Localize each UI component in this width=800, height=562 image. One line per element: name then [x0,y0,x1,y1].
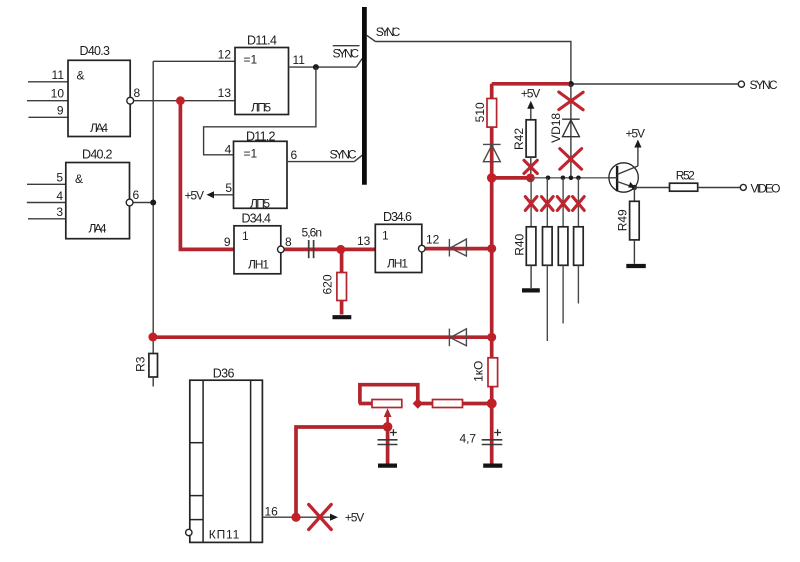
red wire vertical from pin8 net down to D34.4 pin 9 [180,101,234,250]
svg-text:R52: R52 [676,169,695,183]
junction dot at D40.2 pin 6 [150,200,156,206]
svg-text:=1: =1 [244,146,258,160]
wire D40.3 pin 10 input [27,100,69,102]
svg-text:R42: R42 [512,128,526,150]
svg-text:9: 9 [224,235,231,249]
output bubble D40.3 pin 8 [127,97,134,104]
power +5V arrow above R42 [521,87,541,120]
pin label 11 [293,53,306,67]
junction dot red on vertical wire at x153 [148,333,157,342]
long vertical wire from pin 12 net down to red net [152,61,154,354]
X mark on VD18 branch top [559,92,583,110]
pin label 5 [56,170,63,184]
svg-text:510: 510 [473,102,487,122]
red wire D34.6 pin 12 to red bus junction [425,247,492,251]
dangling wire below resistor 3 [562,265,564,323]
capacitor 5,6n [302,226,323,259]
svg-text:D40.3: D40.3 [80,44,111,58]
pin label 13 [218,86,232,100]
pin label 12 [218,48,232,62]
vertical wires to resistor row [531,178,578,227]
wire D40.2 pin 4 input [27,202,66,204]
wire pin16 junction to +5V arrow [296,514,338,521]
diode below 510 [483,144,501,161]
svg-text:D11.4: D11.4 [247,33,277,47]
svg-text:ЛА4: ЛА4 [90,121,108,135]
transistor Q1 [609,163,638,192]
wire R52 to VIDEO terminal [698,187,741,189]
svg-text:16: 16 [265,505,279,519]
power +5V arrow at collector [626,126,646,166]
svg-text:1: 1 [382,228,389,242]
output bubble D34.4 pin 8 [278,246,285,253]
bubble on D36 left edge [186,529,192,535]
wire D40.2 pin 3 input [28,218,66,220]
resistor R52 [670,169,698,192]
svg-text:8: 8 [134,86,141,100]
terminal SYNC [738,78,778,92]
ground below R49 [626,264,646,268]
junction dot [487,333,496,342]
wire D40.3 pin 8 output to D11.4 pin 13 [134,100,235,102]
svg-text:5: 5 [56,170,63,184]
svg-text:5,6n: 5,6n [302,226,323,240]
pin label 6 [291,148,298,162]
svg-text:VIDEO: VIDEO [751,182,781,196]
X mark below VD18 [560,149,582,170]
ground below R40 [522,288,540,292]
ground below 620 [333,315,352,319]
base node wire to transistor [531,177,610,179]
svg-text:620: 620 [321,274,335,294]
svg-text:D40.2: D40.2 [82,147,113,161]
wire emitter node to R52 [634,187,669,189]
feedback wire pin 11 to D11.2 pin 4 [204,67,316,155]
junction dot at pin16 [291,513,300,522]
XOR gate D11.2 ЛП5 [234,129,288,210]
junction dot [568,81,574,87]
diode on pin 12 wire [449,239,466,257]
svg-text:6: 6 [133,188,140,202]
red wire junction row to R42 node dot [492,176,531,180]
red wire top to junction at x=570.9 [492,82,570,86]
svg-text:R49: R49 [615,209,629,231]
svg-text:SYNC: SYNC [330,147,357,161]
power label +5V bottom [345,511,365,525]
svg-text:SYNC: SYNC [376,25,401,39]
NAND gate D40.2 ЛА4 [66,147,130,238]
resistor R3 [133,354,157,387]
big junction dot [487,173,497,183]
red wire pot left terminal [359,402,372,406]
svg-text:10: 10 [51,87,65,101]
svg-text:11: 11 [293,53,306,67]
dangling wire below resistor 2 [546,265,548,341]
pin label 10 [51,87,65,101]
wire R42 bottom to node [530,157,532,178]
pin label 6 [133,188,140,202]
diamond junction at pot right [413,398,423,408]
dangling wire below resistor 4 [577,265,579,303]
resistor R40 [512,227,536,265]
svg-text:D34.6: D34.6 [383,210,412,224]
svg-text:D34.4: D34.4 [242,212,272,226]
wire SYNC from bus to right [367,35,571,84]
wire D11.4 pin 12 input [153,60,235,62]
red wire wiper junction down to cap [386,427,390,464]
pin label 16 [265,505,279,519]
svg-text:3: 3 [56,205,63,219]
pin label 5 [225,181,232,195]
wire D36 pin 16 [262,516,296,518]
pin label 3 [56,205,63,219]
red wire diamond to resistor [418,402,433,406]
X marks row of four [525,197,584,211]
big red vertical wire x=491.7 [490,84,494,464]
svg-text:SYNC: SYNC [750,78,778,92]
svg-text:13: 13 [357,234,371,248]
wiper arrow red [384,408,392,427]
svg-text:11: 11 [52,68,65,82]
svg-text:D11.2: D11.2 [246,129,276,143]
svg-text:9: 9 [57,104,64,118]
svg-text:+5V: +5V [521,87,541,101]
wire R49 to ground [633,240,635,264]
capacitor polarized at wiper [378,429,398,444]
pin label 4 [56,189,63,203]
ground below wiper cap [378,464,397,468]
svg-text:&: & [75,172,83,186]
svg-text:4: 4 [225,142,232,156]
wire R40 to ground [530,265,532,288]
pin label 13 [357,234,371,248]
svg-text:R40: R40 [512,233,526,255]
junction dot on pin 11 wire [313,64,319,70]
diode on bottom net [449,329,466,347]
junction dots on base node line [546,176,581,181]
power label +5V [185,189,205,203]
junction dot [487,244,496,253]
wire D40.2 pin 6 output [133,202,153,204]
svg-text:8: 8 [285,235,292,249]
junction dot after capacitor [336,245,345,254]
IC D36 КП11 [190,366,263,542]
junction dot at emitter node [632,185,637,190]
pin label 9 [57,104,64,118]
svg-text:4,7: 4,7 [460,431,477,445]
pin label 11 [52,68,65,82]
NAND gate D40.3 ЛА4 [68,44,130,137]
svg-text:ЛН1: ЛН1 [387,256,408,270]
resistor 620 [321,273,347,301]
net label SYNC top [376,25,401,39]
svg-text:13: 13 [218,86,232,100]
svg-text:ЛП5: ЛП5 [250,196,270,210]
svg-text:+5V: +5V [185,189,205,203]
diode VD18 [549,113,580,143]
wire D11.2 pin 6 output to bus [287,155,362,161]
capacitor 4,7 polarized [460,429,503,445]
resistor (unlabeled) 2 [543,227,553,265]
svg-text:&: & [77,69,85,83]
X mark below R42 [524,160,537,173]
pin label 8 [285,235,292,249]
red wire 620 branch down to ground [340,249,344,314]
wire +5V arrow to D11.2 pin 5 [207,191,234,198]
wire junction to SYNC terminal [571,83,738,85]
wire D40.3 pin 11 input [28,81,69,83]
resistor horizontal (unlabeled) [433,400,463,408]
svg-text:1: 1 [242,229,249,243]
junction dot red at pin8 net [176,96,185,105]
svg-text:ЛП5: ЛП5 [251,101,271,115]
output bubble D40.2 pin 6 [126,199,133,206]
output bubble D34.6 pin 12 [419,245,426,252]
svg-text:6: 6 [291,148,298,162]
net label SYNC with overline [333,46,360,61]
resistor R42 [512,120,535,157]
red wire horizontal bottom net [153,335,492,339]
svg-text:КП11: КП11 [209,527,240,541]
svg-text:ЛН1: ЛН1 [248,258,269,272]
emitter wire down to R49 [633,188,635,202]
svg-text:5: 5 [225,181,232,195]
junction dot at wiper [383,422,393,432]
svg-text:D36: D36 [213,366,235,380]
wire D11.4 pin 11 output to bus [289,58,363,67]
wire D40.3 pin 9 input [29,116,69,118]
wire D40.2 pin 5 input [27,183,66,185]
inverter D34.4 ЛН1 [234,212,281,274]
node dot red on base line [526,174,535,183]
svg-text:1кО: 1кО [472,361,486,382]
pin label 8 [134,86,141,100]
svg-text:VD18: VD18 [549,113,563,143]
potentiometer body [372,400,402,408]
svg-text:R3: R3 [133,356,147,372]
resistor (unlabeled) 4 [574,227,584,265]
ground below 4,7 [483,464,502,468]
resistor 1к0 [472,358,498,387]
svg-text:SYNC: SYNC [333,46,360,60]
svg-text:+5V: +5V [626,126,646,140]
wire VD18 branch vertical [570,84,572,178]
red wire D34.4 pin 8 to capacitor and junction [284,248,375,252]
red wire resistor to 1к0 junction [463,402,492,406]
pin label 12 [426,232,440,246]
junction dot bottom of 1к0 [487,399,497,409]
svg-text:+5V: +5V [345,511,365,525]
svg-text:=1: =1 [244,53,258,67]
red wire pot bypass loop [360,385,418,404]
svg-text:4: 4 [56,189,63,203]
net label SYNC [330,147,357,161]
resistor 510 [473,99,497,128]
pin label 4 [225,142,232,156]
svg-text:12: 12 [218,48,232,62]
pin label 9 [224,235,231,249]
svg-text:ЛА4: ЛА4 [89,222,107,236]
red wire from D36 pin16 up and right to wiper junction [296,427,388,517]
resistor R49 [615,201,639,240]
terminal VIDEO [740,182,780,196]
bus bar (thick vertical) [362,7,367,185]
inverter D34.6 ЛН1 [375,210,422,272]
XOR gate D11.4 ЛП5 [235,33,289,114]
resistor (unlabeled) 3 [558,227,568,265]
X mark on +5V wire [309,505,332,530]
svg-text:12: 12 [426,232,440,246]
